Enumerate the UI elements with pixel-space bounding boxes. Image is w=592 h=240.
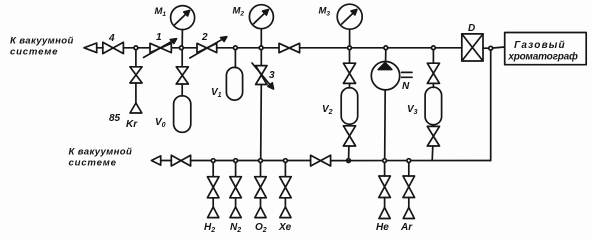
gas source 85Kr xyxy=(109,103,142,130)
svg-text:системе: системе xyxy=(10,47,58,58)
junction node H (after detector) xyxy=(489,46,493,50)
wire: V3 branch drop from node G xyxy=(432,50,434,64)
pump N xyxy=(371,61,412,92)
vessel V2 xyxy=(322,88,358,125)
wire: H2 branch drop xyxy=(212,163,214,177)
valve 1 (regulating) xyxy=(144,32,177,58)
svg-text:Ar: Ar xyxy=(400,222,413,233)
wire: valve 3 to bottom manifold xyxy=(260,85,263,159)
svg-text:M3: M3 xyxy=(319,6,331,18)
wire: valve to Xe source xyxy=(284,198,286,207)
vessel V3 xyxy=(407,87,442,125)
valve O2 xyxy=(255,177,267,198)
valve H2 xyxy=(207,177,219,198)
wire: bottom manifold left segment xyxy=(191,160,311,162)
wire: V3 bottom valve to manifold xyxy=(431,146,434,161)
svg-text:N: N xyxy=(402,81,410,92)
wire: top main line arrow to valve 4 xyxy=(97,47,103,49)
valve V3 bottom xyxy=(427,126,439,146)
wire: V2 bottom valve to manifold xyxy=(348,146,350,159)
vessel V1 xyxy=(211,67,243,100)
line arrow: top vacuum outlet xyxy=(84,43,97,53)
node: to vacuum system (top label) xyxy=(10,36,74,58)
junction node Ar xyxy=(407,159,411,163)
wire: valve to O2 source xyxy=(260,198,262,207)
svg-text:V3: V3 xyxy=(407,104,418,116)
line arrow: bottom vacuum outlet xyxy=(151,156,160,165)
wire: He branch drop xyxy=(384,163,386,177)
wire: M3 riser xyxy=(349,29,351,46)
junction node E (below M3) xyxy=(348,46,352,50)
wire: valve to vessel V3 xyxy=(432,83,434,87)
svg-text:Газовый: Газовый xyxy=(514,40,566,51)
wire: Kr branch drop from node A xyxy=(135,50,137,67)
wire: bottom manifold right segment xyxy=(331,160,491,162)
junction node He xyxy=(383,159,387,163)
node: to vacuum system (bottom label) xyxy=(69,147,133,169)
valve 4 xyxy=(103,33,124,54)
valve 3 (regulating, to bottom manifold) xyxy=(252,63,275,89)
svg-text:N2: N2 xyxy=(230,222,241,233)
wire: V1 branch drop from node C xyxy=(234,50,236,68)
svg-text:1: 1 xyxy=(156,32,162,43)
wire: node D2 to valve 5 xyxy=(263,47,279,49)
gauge M3 xyxy=(319,4,363,29)
wire: valve 2 to node C xyxy=(217,47,234,49)
gas chromatograph unit xyxy=(505,33,587,65)
valve V3 top xyxy=(427,63,439,83)
junction node O2 xyxy=(259,159,263,163)
vessel V0 xyxy=(155,96,191,133)
valve He xyxy=(379,176,391,198)
wire: node G to detector D xyxy=(435,47,462,49)
svg-text:D: D xyxy=(468,23,475,34)
junction node F (pump tap) xyxy=(384,46,388,50)
wire: valve 5 to node E xyxy=(300,47,348,49)
svg-text:He: He xyxy=(376,222,389,233)
gas source O2 xyxy=(255,207,267,234)
svg-text:H2: H2 xyxy=(204,222,215,233)
svg-text:4: 4 xyxy=(108,33,115,44)
valve Kr branch xyxy=(130,67,142,83)
wire: valve to vessel V0 xyxy=(181,84,183,96)
junction node Xe xyxy=(284,159,288,163)
gauge M1 xyxy=(155,6,195,30)
wire: pump to bottom manifold xyxy=(384,90,387,159)
wire: Xe branch drop xyxy=(284,163,286,177)
detector D xyxy=(462,23,483,61)
wire: detector D to node H xyxy=(483,47,489,49)
svg-text:системе: системе xyxy=(69,158,117,169)
svg-text:К вакуумной: К вакуумной xyxy=(10,36,74,47)
gas source Ar xyxy=(400,208,414,234)
wire: node B to valve 2 xyxy=(183,47,197,49)
wire: valve 3 drop from node D2 xyxy=(260,50,262,66)
wire: M1 riser xyxy=(181,30,183,46)
valve N2 xyxy=(230,177,242,198)
wire: node H to chromatograph xyxy=(493,47,505,48)
gas source N2 xyxy=(230,207,241,234)
svg-text:V2: V2 xyxy=(322,104,333,116)
gauge M2 xyxy=(233,5,274,29)
valve 5 (shut-off between sections) xyxy=(279,43,300,52)
svg-text:O2: O2 xyxy=(255,222,267,233)
valve bottom-left (manifold shut-off) xyxy=(171,155,190,166)
junction node V2-manifold xyxy=(347,159,351,163)
svg-text:85: 85 xyxy=(109,113,121,124)
gas source H2 xyxy=(204,207,219,234)
svg-text:M2: M2 xyxy=(233,6,245,18)
wire: valve to Kr source xyxy=(135,83,137,103)
svg-text:2: 2 xyxy=(201,32,208,43)
wire: valve 4 to node A xyxy=(123,47,134,49)
wire: node C to node D2 xyxy=(237,47,259,49)
junction node A xyxy=(134,46,138,50)
wire: node F to node G xyxy=(388,47,432,49)
wire: valve to N2 source xyxy=(235,198,237,207)
svg-text:Kr: Kr xyxy=(126,119,138,130)
wire: N2 branch drop xyxy=(235,163,237,177)
junction node B (below M1) xyxy=(180,46,184,50)
svg-text:V1: V1 xyxy=(211,87,222,99)
valve Xe xyxy=(280,177,292,198)
wire: valve to H2 source xyxy=(212,198,214,207)
wire: V0 branch drop from node B xyxy=(181,50,183,67)
wire: node A to valve 1 xyxy=(138,47,150,49)
gas source He xyxy=(376,208,390,234)
junction node H2 xyxy=(211,159,215,163)
valve V2 bottom xyxy=(343,126,355,146)
wire: arrow to bottom valve xyxy=(161,160,172,162)
valve bottom-right (manifold shut-off) xyxy=(311,155,331,166)
wire: valve 1 to node B xyxy=(171,47,179,49)
gas source Xe xyxy=(278,207,292,233)
junction node C (V1 tap) xyxy=(234,46,238,50)
junction node G (V3 tap) xyxy=(432,46,436,50)
wire: valve to He source xyxy=(384,198,386,208)
valve V0 branch xyxy=(176,67,188,84)
wire: valve to vessel V2 xyxy=(349,83,351,88)
valve V2 top xyxy=(343,63,355,83)
wire: V2 branch drop from node E xyxy=(349,50,351,64)
wire: O2 branch drop xyxy=(260,163,262,177)
wire: valve to Ar source xyxy=(408,198,410,208)
junction node D2 (below M2) xyxy=(259,46,263,50)
wire: pump riser from node F xyxy=(385,50,387,62)
wire: M2 riser xyxy=(260,29,262,46)
svg-text:хроматограф: хроматограф xyxy=(507,51,578,63)
valve 2 (regulating) xyxy=(190,32,227,58)
junction node N2 xyxy=(234,159,238,163)
svg-text:3: 3 xyxy=(269,70,275,81)
svg-text:К вакуумной: К вакуумной xyxy=(69,147,133,158)
svg-text:V0: V0 xyxy=(155,117,166,129)
wire: node E to node F xyxy=(351,47,384,49)
svg-text:M1: M1 xyxy=(155,6,167,18)
wire: Ar branch drop xyxy=(408,163,410,177)
svg-text:Xe: Xe xyxy=(278,222,292,233)
valve Ar xyxy=(403,176,415,198)
wire: node H down to bottom manifold xyxy=(490,50,492,160)
